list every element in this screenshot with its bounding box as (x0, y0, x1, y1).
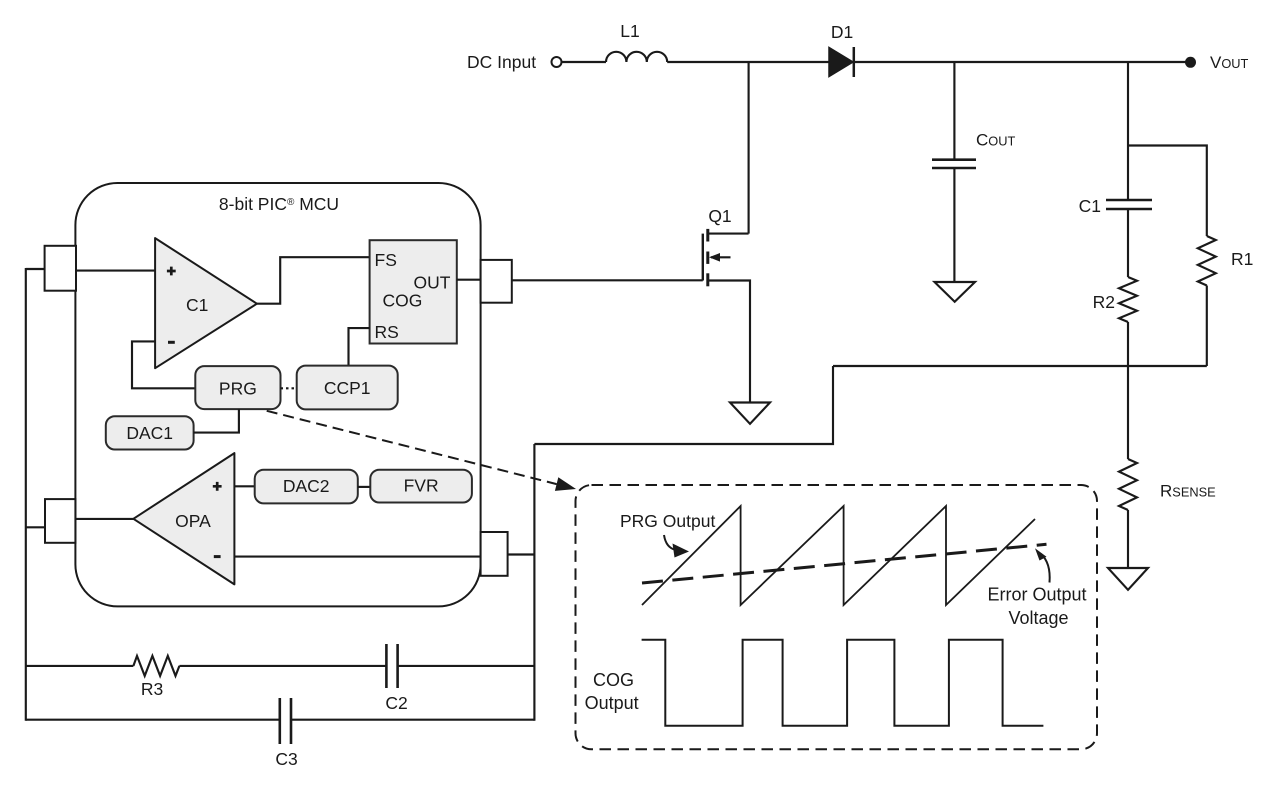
wire gate from pin to Q1 (512, 279, 703, 281)
waveform callout box (576, 485, 1098, 749)
wire C1 to R2 (1127, 209, 1129, 277)
svg-text:Error Output: Error Output (987, 585, 1086, 605)
wire VOUT branch down (1127, 62, 1129, 200)
wire diode to VOUT (854, 61, 1186, 63)
svg-text:OPA: OPA (175, 511, 211, 531)
block CCP1 (297, 366, 398, 410)
op-amp comparator C1 (155, 238, 257, 368)
svg-text:COUT: COUT (976, 131, 1015, 150)
wire COG OUT to pin (457, 279, 481, 281)
arrow Error Output (1041, 554, 1050, 583)
dotted link PRG CCP1 (281, 387, 297, 389)
wire C1 minus input (132, 341, 195, 388)
wire sense node horizontal (833, 365, 1207, 367)
svg-text:COG: COG (382, 291, 422, 311)
wire feedback right vertical (533, 444, 535, 721)
wire pin to C1 plus input (76, 270, 155, 272)
svg-text:COG: COG (593, 670, 634, 690)
wire Q1 drain (708, 233, 749, 235)
capacitor C2 (385, 644, 388, 688)
wire OPA minus input (234, 556, 480, 558)
resistor R1 (1198, 236, 1216, 286)
svg-text:Q1: Q1 (708, 206, 731, 226)
wire C1 output to COG FS (257, 257, 370, 304)
waveform PRG sawtooth (642, 506, 1035, 605)
MCU 8-bit PIC outline (75, 183, 480, 606)
waveform COG square wave (642, 640, 1044, 726)
wire L1 to diode (667, 61, 829, 63)
wire R3 to C2 (179, 665, 386, 667)
pin left bottom (45, 499, 75, 543)
wire DAC2 to FVR (358, 486, 371, 488)
arrow PRG Output (664, 535, 676, 550)
wire RSENSE to ground (1127, 510, 1129, 568)
svg-text:8-bit PIC® MCU: 8-bit PIC® MCU (219, 194, 339, 214)
pin right bottom (481, 532, 508, 576)
wire DAC1 to PRG (194, 409, 239, 433)
svg-text:FS: FS (375, 250, 397, 270)
wire drain junction vertical (748, 62, 750, 234)
waveform error output dashed line (642, 544, 1047, 583)
svg-text:R2: R2 (1093, 292, 1115, 312)
svg-text:Output: Output (585, 693, 639, 713)
wire bottom lower left (26, 719, 280, 721)
pin right top (481, 260, 512, 303)
diode D1 (829, 48, 853, 77)
wire bottom upper left (26, 665, 134, 667)
wire R1 bottom (1206, 286, 1208, 367)
svg-text:PRG Output: PRG Output (620, 511, 715, 531)
svg-text:DAC2: DAC2 (283, 476, 330, 496)
wire C3 to right vertical (291, 719, 534, 721)
wire sense node down-left step (534, 366, 833, 444)
inductor L1 (606, 52, 667, 62)
node VOUT dot (1185, 57, 1196, 68)
svg-text:Voltage: Voltage (1008, 608, 1068, 628)
wire OPA plus to DAC2 (234, 485, 254, 487)
capacitor C3 (278, 698, 281, 744)
svg-text:D1: D1 (831, 22, 853, 42)
svg-text:L1: L1 (620, 21, 639, 41)
svg-text:C3: C3 (275, 749, 297, 769)
ground RSENSE (1108, 568, 1148, 590)
svg-text:DAC1: DAC1 (126, 423, 173, 443)
resistor R3 (133, 656, 179, 676)
svg-text:C1: C1 (1079, 196, 1101, 216)
COG block (370, 240, 457, 343)
capacitor C1 output filter (1106, 199, 1152, 202)
terminal DC input (552, 57, 562, 67)
Q1 body arrow (711, 256, 731, 258)
wire outer to C1 plus pin (26, 268, 45, 270)
svg-text:CCP1: CCP1 (324, 378, 371, 398)
capacitor COUT (932, 158, 976, 161)
wire COUT branch down (953, 62, 955, 160)
ground Q1 source (730, 403, 770, 424)
op-amp OPA (133, 453, 234, 584)
wire C2 to right vertical (398, 665, 535, 667)
svg-text:OUT: OUT (414, 273, 451, 293)
svg-text:C2: C2 (385, 693, 407, 713)
wire R2 to sense node (1127, 322, 1129, 366)
block DAC1 (106, 416, 194, 449)
block PRG (195, 366, 280, 409)
block FVR (370, 470, 472, 503)
wire COG RS to CCP1 (349, 328, 370, 366)
wire OPA minus pin to feedback (508, 553, 535, 555)
wire left outer vertical (25, 268, 27, 721)
pin left top (45, 246, 76, 291)
wire R1 branch top (1128, 146, 1207, 237)
svg-text:PRG: PRG (219, 379, 257, 399)
svg-text:C1: C1 (186, 295, 208, 315)
wire sense to RSENSE (1127, 366, 1129, 459)
wire Q1 source (708, 281, 750, 403)
dashed pointer PRG to waveform box (267, 411, 557, 484)
svg-text:RS: RS (375, 322, 399, 342)
wire OPA output to pin (76, 518, 133, 520)
svg-text:DC Input: DC Input (467, 52, 536, 72)
svg-text:RSENSE: RSENSE (1160, 482, 1216, 501)
wire COUT to ground (953, 168, 955, 282)
resistor R2 (1119, 277, 1137, 322)
svg-text:R3: R3 (141, 679, 163, 699)
wire outer to OPA output pin (26, 526, 45, 528)
svg-text:VOUT: VOUT (1210, 53, 1249, 72)
wire terminal to L1 (562, 61, 607, 63)
svg-text:R1: R1 (1231, 249, 1253, 269)
ground COUT (935, 282, 976, 302)
svg-text:FVR: FVR (404, 476, 439, 496)
block DAC2 (255, 470, 358, 504)
resistor RSENSE (1119, 459, 1137, 510)
